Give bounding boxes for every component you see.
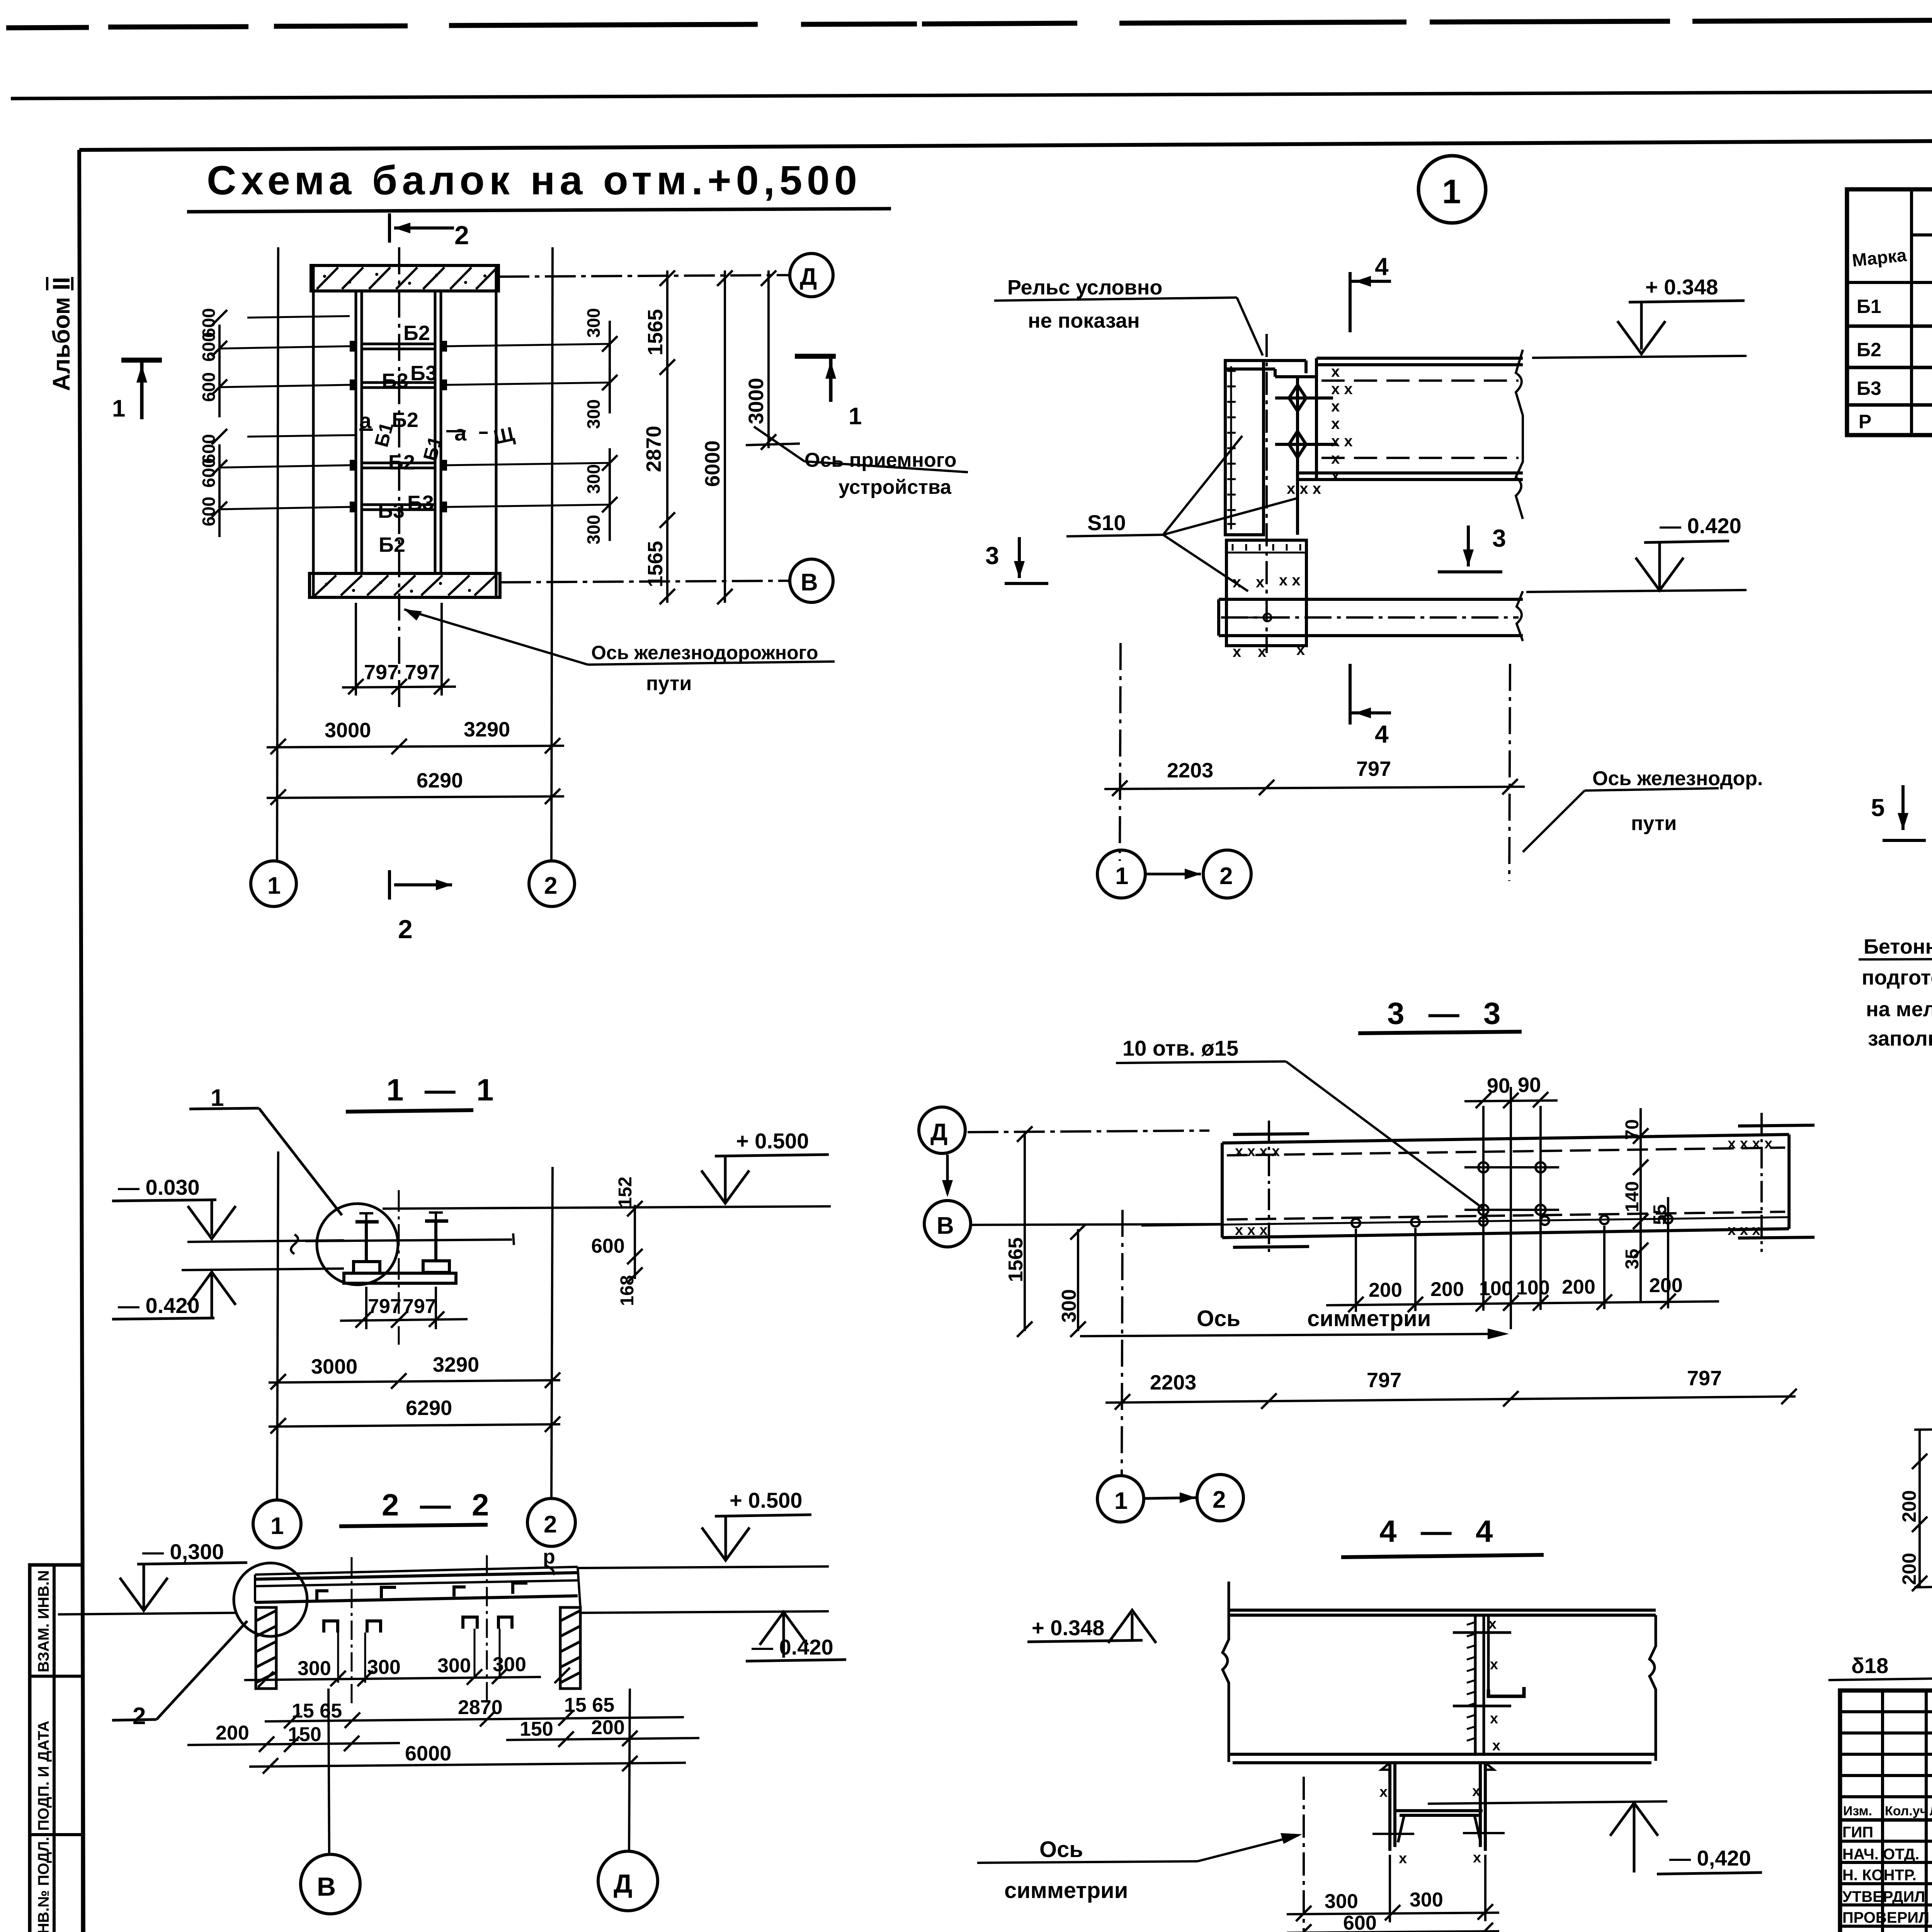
svg-text:200: 200 [1649,1274,1683,1297]
svg-text:— 0.420: — 0.420 [752,1635,833,1659]
svg-text:5: 5 [1871,794,1885,821]
svg-text:x: x [1473,1850,1481,1866]
top edge binding dashes [6,18,1932,28]
4-4: weld x marks below [1379,1783,1481,1867]
3-3: label 10 отв ф15 [1116,1036,1483,1209]
svg-text:1: 1 [849,403,862,430]
svg-text:x: x [1492,1738,1500,1754]
1-1: elevation -0.030 [112,1175,344,1242]
svg-text:Ось: Ось [1197,1306,1240,1331]
detail 1: rail axis dash-dot [1265,334,1268,653]
detail 1: lower plate weld ticks [1233,544,1300,551]
plan: right channel beam [435,291,441,573]
svg-text:2203: 2203 [1167,759,1213,782]
svg-text:а: а [359,408,372,433]
svg-text:Б2: Б2 [388,451,415,474]
svg-text:200: 200 [1898,1553,1920,1585]
svg-text:200: 200 [1562,1276,1595,1298]
svg-text:200: 200 [1369,1279,1402,1301]
detail 1: weld x marks column [1287,363,1353,497]
svg-text:2: 2 [544,872,557,899]
3-3: grid circle 1 [1097,1476,1144,1522]
svg-text:x: x [1379,1784,1388,1800]
svg-text:Б2: Б2 [403,321,430,345]
svg-text:+ 0.348: + 0.348 [1032,1616,1104,1640]
plan: extension lines left [219,316,355,509]
svg-text:300: 300 [583,464,604,494]
svg-text:x x x x: x x x x [1235,1143,1280,1160]
detail 1: grid circle 1 [1097,850,1145,898]
2-2: right wall hatched [560,1607,580,1689]
section 4-4 title [1341,1514,1544,1557]
svg-text:200: 200 [591,1716,625,1739]
svg-text:3 — 3: 3 — 3 [1387,996,1508,1031]
section marker 3 right [1438,524,1506,572]
svg-text:ПОДП. И ДАТА: ПОДП. И ДАТА [35,1721,52,1831]
1-1: right dim 152/600/168 [627,1201,643,1283]
svg-text:Ось: Ось [1039,1837,1083,1862]
svg-text:2: 2 [398,915,413,944]
1-1: rail head ticks [359,1213,443,1222]
svg-text:797: 797 [368,1295,401,1318]
svg-text:600: 600 [199,372,219,402]
1-1: 797 797 dimension [340,1287,468,1329]
4-4: right break vertical [1650,1615,1656,1761]
svg-text:x: x [1331,415,1340,432]
table verticals [1912,189,1932,435]
svg-text:ИНВ.№ ПОДЛ.: ИНВ.№ ПОДЛ. [35,1837,52,1932]
svg-text:2870: 2870 [458,1696,503,1719]
section 2-2 title [339,1488,495,1526]
main title: Схема балок на отм.+0.500 [187,158,891,212]
svg-text:300: 300 [583,308,604,338]
row Б1 [1857,292,1932,318]
svg-text:6290: 6290 [417,769,463,792]
svg-text:заполнителе: заполнителе [1868,1027,1932,1050]
svg-text:3: 3 [985,542,999,570]
elevation -0.420 (detail 1) [1526,514,1747,592]
svg-text:140: 140 [1622,1181,1643,1212]
svg-text:x: x [1331,398,1340,415]
plan: 797 797 dimension [342,603,456,696]
svg-text:2: 2 [133,1703,146,1730]
svg-text:x x: x x [1279,572,1301,589]
svg-text:1 — 1: 1 — 1 [386,1073,500,1107]
1-1: elevation +0.500 [383,1129,831,1209]
svg-text:симметрии: симметрии [1307,1306,1431,1331]
svg-text:300: 300 [1058,1289,1080,1323]
plan: section marker 1 right [795,356,836,402]
3-3: grid circle В [924,1201,971,1247]
section marker 4 bottom [1350,664,1391,724]
svg-text:6000: 6000 [701,440,724,487]
svg-text:300: 300 [367,1656,401,1679]
3-3: rail axes dash-dot [1268,1121,1270,1257]
plan: 1565/2870/1565 dimension line [660,270,675,604]
label Бетонная подготовка М200 на мелком заполнителе [1859,878,1932,1050]
svg-text:Б3: Б3 [407,492,434,515]
svg-text:x: x [1331,363,1340,380]
section marker 5 left [1871,785,1926,840]
svg-text:x: x [1256,574,1264,591]
2-2: axis lines to circles [328,1689,329,1854]
svg-text:не показан: не показан [1028,309,1140,332]
plan: right 300 dimension line [602,321,617,541]
detail 1: beam Б1 bottom flange [1298,473,1523,480]
svg-text:600: 600 [199,497,219,526]
svg-text:Изм.: Изм. [1843,1804,1872,1818]
2-2: elevation -0.300 [58,1539,247,1614]
detail 1: weld ticks on plate [1227,371,1236,524]
plan: grid axis 1 [277,247,278,861]
svg-text:р: р [543,1546,555,1568]
3-3: grid circle Д with arrow to В [919,1107,965,1197]
svg-text:УТВЕРДИЛ: УТВЕРДИЛ [1842,1888,1925,1905]
4-4: elevation +0.348 [1027,1610,1156,1643]
plan: grid circle 1 [251,861,296,906]
svg-text:РАЗРАБОТ: РАЗРАБОТ [1842,1930,1925,1932]
table frame [1847,189,1932,435]
4-4: webs below flange [1381,1763,1494,1851]
svg-text:1: 1 [112,395,125,422]
svg-text:ГИП: ГИП [1842,1824,1873,1841]
1-1: level line through rails with break [291,1233,514,1254]
svg-text:1: 1 [270,1513,284,1539]
svg-text:x: x [1488,1616,1497,1632]
detail 1: column plate upper [1225,361,1264,535]
svg-text:Ось железнодор.: Ось железнодор. [1592,767,1763,790]
svg-text:797: 797 [405,661,440,684]
2-2: slab band [255,1567,580,1607]
svg-text:2203: 2203 [1150,1371,1196,1394]
svg-text:3290: 3290 [433,1353,479,1376]
elevation +0.348 (detail 1) [1532,275,1747,358]
svg-text:Р: Р [1859,411,1871,432]
4-4: stiffener cross ticks [1453,1633,1511,1706]
revision rows: role names [1842,1824,1929,1932]
plan: axis a-a dash line with labels [359,430,488,433]
plan: axis В circle [500,559,833,602]
svg-text:Бетонная: Бетонная [1864,935,1932,958]
svg-text:S10: S10 [1087,510,1126,535]
svg-text:1565: 1565 [1005,1237,1027,1282]
svg-text:x: x [1472,1783,1480,1799]
svg-text:В: В [801,569,818,596]
svg-text:Б2: Б2 [379,533,405,556]
1-1: base plate bar [344,1273,456,1283]
svg-text:300: 300 [583,515,604,544]
1-1: grid circle 1 [253,1500,301,1548]
4-4: foot cross ticks [1372,1833,1505,1834]
plan: outer edge lines [313,265,496,597]
detail 1: beam Б1 top flange [1316,358,1523,480]
svg-text:Б3: Б3 [378,499,405,522]
1-1: right rail [423,1221,449,1272]
top long horizontal rule [11,89,1932,99]
1-1: centre axis between rails [398,1190,400,1345]
svg-text:Д: Д [930,1119,947,1146]
album label: Альбом II (rotated) [48,277,75,391]
svg-text:600: 600 [199,458,219,488]
svg-text:3000: 3000 [325,719,371,742]
svg-text:4: 4 [1375,720,1389,748]
svg-text:Б3: Б3 [1857,378,1881,399]
svg-text:55: 55 [1650,1204,1670,1225]
svg-text:797: 797 [364,661,399,684]
1-1: grid axis lines [277,1151,278,1500]
svg-text:x: x [1296,641,1305,658]
4-4: Ось симметрии label [977,1833,1302,1903]
5-5: left 200/200 dimension [1912,1429,1932,1591]
detail 1: bolts (diamonds) [1275,385,1337,457]
svg-text:797: 797 [403,1295,436,1318]
svg-text:15 65: 15 65 [292,1700,342,1722]
2-2: leader 2 [112,1621,247,1730]
svg-text:600: 600 [199,332,219,362]
svg-text:Рельс условно: Рельс условно [1007,276,1162,299]
svg-text:— 0,420: — 0,420 [1669,1846,1751,1870]
3-3: axis Д dash line [968,1131,1209,1132]
svg-text:200: 200 [1430,1278,1464,1301]
svg-text:— 0,300: — 0,300 [142,1539,224,1564]
2-2: elevation -0.420 right [580,1611,846,1661]
svg-text:пути: пути [1631,812,1677,835]
svg-text:90: 90 [1518,1073,1541,1097]
2-2: elevation +0.500 [578,1488,829,1568]
4-4: left break vertical [1223,1582,1229,1762]
4-4: centre axis below [1303,1777,1305,1932]
node 1 circle [1418,156,1486,223]
plan: 6000 dimension line [717,270,733,604]
plan: 6290 dimension [267,789,564,805]
2-2: detail circle left [234,1563,307,1636]
svg-text:Д: Д [800,264,817,290]
3-3: centre axis vertical [1510,1087,1512,1329]
title block outer frame [1840,1690,1932,1932]
detail 1: grid circle 2 [1203,850,1251,898]
svg-text:3000: 3000 [745,378,768,424]
svg-text:Альбом II: Альбом II [48,277,75,391]
3-3: weld x-marks [1235,1136,1772,1238]
label Ось железнодор. пути (detail 1) [1523,767,1763,852]
plan: left channel beam [356,291,362,573]
svg-text:НАЧ. ОТД.: НАЧ. ОТД. [1842,1846,1919,1863]
4-4: channel hat between webs [1396,1811,1483,1842]
section 1-1 title [346,1073,500,1112]
4-4: centre stiffener [1475,1615,1488,1753]
svg-text:x x: x x [1331,433,1353,450]
plan: section marker 2 top [389,213,454,243]
1-1: grid circle 2 [527,1498,575,1546]
3-3: line from В to beam [971,1224,1222,1225]
svg-text:2: 2 [1213,1486,1226,1513]
svg-text:2: 2 [454,221,469,250]
svg-text:+ 0.348: + 0.348 [1645,275,1718,299]
2-2: left wall hatched [256,1607,276,1689]
3-3: 300 dimension left [1070,1224,1086,1337]
svg-text:797: 797 [1367,1369,1401,1392]
svg-text:устройства: устройства [838,476,952,498]
3-3: hidden dashed lines [1227,1148,1785,1219]
label δ18 with leader [1828,1585,1932,1680]
svg-text:1565: 1565 [644,309,667,355]
svg-text:3: 3 [1492,524,1506,552]
svg-text:Н. КОНТР.: Н. КОНТР. [1842,1867,1917,1884]
svg-text:на мелком: на мелком [1866,998,1932,1021]
svg-text:x: x [1490,1711,1498,1727]
svg-text:x: x [1490,1656,1498,1673]
svg-text:70: 70 [1622,1119,1643,1140]
svg-text:2870: 2870 [642,426,665,472]
plan: grid axis 2 [551,247,553,861]
3-3: axis 1 dash vertical [1122,1210,1122,1475]
svg-text:Б1: Б1 [1857,296,1881,317]
plan: railway centre axis (dash-dot) [398,247,400,708]
3-3: grid circle 2 [1197,1475,1243,1521]
row Р [1859,411,1932,432]
2-2: label p with hook [543,1546,555,1575]
svg-text:+ 0.500: + 0.500 [730,1488,802,1512]
svg-text:152: 152 [615,1177,636,1207]
svg-text:150: 150 [520,1718,553,1740]
detail 1: railway axis dash line [1509,664,1510,881]
section marker 3 left [985,537,1048,583]
3-3: arrow between 1 and 2 [1144,1492,1196,1503]
plan: cross beams Б3 rows with end plates [362,344,435,510]
svg-text:Кол.уч: Кол.уч [1885,1804,1927,1818]
1-1: 6290 dimension [269,1417,560,1434]
svg-text:В: В [317,1872,336,1901]
svg-text:797: 797 [1687,1367,1722,1390]
revision header: Изм Кол.уч Лист Nдок Подп. Дата [1843,1804,1932,1819]
svg-text:300: 300 [298,1657,331,1680]
2-2: rail axes dash-dot [351,1557,353,1704]
svg-text:подготовка М200: подготовка М200 [1862,966,1932,989]
svg-text:4 — 4: 4 — 4 [1379,1514,1500,1548]
row Б3 [1857,377,1932,401]
svg-text:x x: x x [1331,381,1353,398]
svg-text:В: В [937,1213,954,1239]
svg-text:3290: 3290 [464,718,510,741]
svg-text:x: x [1399,1850,1407,1867]
svg-text:x: x [1331,468,1340,485]
left margin stamp boxes [30,1565,83,1932]
3-3: bolt holes upper rows [1464,1162,1559,1215]
row Б2 [1857,336,1932,363]
svg-text:1: 1 [1442,172,1461,211]
svg-text:10 отв. ø15: 10 отв. ø15 [1122,1036,1238,1060]
section marker 4 top [1350,272,1391,332]
3-3: Ось симметрии with arrow [1080,1306,1509,1339]
svg-text:+ 0.500: + 0.500 [736,1129,809,1153]
svg-text:35: 35 [1622,1249,1643,1269]
svg-text:168: 168 [617,1275,638,1306]
svg-text:x x x x: x x x x [1728,1136,1772,1152]
svg-text:x x x: x x x [1728,1222,1760,1238]
svg-text:— 0.420: — 0.420 [1660,514,1742,538]
detail 1: arrow between circles [1146,869,1201,879]
svg-text:Схема балок на отм.+0,500: Схема балок на отм.+0,500 [207,158,862,203]
1-1: detail circle [317,1204,398,1285]
4-4: angle clip [1488,1687,1524,1696]
svg-text:x x x: x x x [1287,480,1321,497]
svg-text:6290: 6290 [406,1396,452,1420]
label Рельс условно не показан [994,276,1263,355]
svg-text:Ось железнодорожного: Ось железнодорожного [591,642,818,663]
svg-text:300: 300 [1325,1890,1358,1913]
svg-text:x: x [1258,643,1266,660]
svg-text:x: x [1233,643,1241,660]
plan: grid circle 2 [529,861,575,906]
3-3: bolt holes bottom row [1141,1215,1789,1227]
plan: label Ось железнодорожного пути [404,609,835,695]
table horizontals [1847,235,1932,405]
detail 1: lower column plate [1226,540,1306,646]
svg-text:— 0.420: — 0.420 [118,1293,200,1318]
2-2: channel marks below slab [324,1617,512,1633]
svg-text:2 — 2: 2 — 2 [382,1488,495,1522]
svg-text:1: 1 [267,872,281,899]
detail 1: rail seat / top angle [1225,361,1316,535]
svg-text:ПРОВЕРИЛ: ПРОВЕРИЛ [1842,1909,1929,1926]
svg-text:Б2: Б2 [1857,339,1881,361]
1-1: left rail [354,1222,380,1273]
svg-text:1: 1 [1115,863,1128,889]
svg-text:δ18: δ18 [1851,1653,1888,1678]
svg-text:600: 600 [1343,1912,1377,1932]
svg-text:600: 600 [591,1235,625,1257]
4-4: beam top flange [1228,1610,1656,1615]
svg-text:2: 2 [544,1511,557,1538]
3-3: end plates [1233,1125,1815,1247]
detail 1: lower weld x marks [1233,572,1305,660]
1-1: 3000/3290 dimension [269,1372,560,1389]
2-2: grid circle В [301,1854,360,1914]
svg-text:3000: 3000 [311,1355,357,1378]
4-4: bottom flange [1229,1754,1656,1763]
svg-text:300: 300 [493,1653,526,1676]
svg-text:Б3: Б3 [410,362,437,385]
3-3: beam body [1222,1134,1789,1238]
plan: left 600 dimension line [212,310,227,537]
svg-text:Д: Д [614,1869,632,1898]
svg-text:4: 4 [1375,253,1389,281]
4-4: weld x marks on stiffener [1488,1616,1500,1754]
label S10 with leaders [1066,436,1296,591]
plan: label Ось приемного устройства [754,427,968,498]
svg-text:симметрии: симметрии [1004,1878,1128,1903]
plan: bottom concrete band [310,573,500,597]
plan: top concrete band [311,265,498,291]
plan: section marker 2 bottom [389,870,452,900]
3-3: right dims 70/140/55/35 [1633,1108,1668,1303]
svg-text:797: 797 [1356,757,1391,781]
svg-text:300: 300 [437,1655,471,1677]
detail 1: lower beam right break [1517,591,1523,641]
plan: axis Д circle [498,253,833,297]
2-2: grid circle Д [598,1851,658,1911]
revision table grid [1840,1690,1932,1932]
detail 1: lower beam (rail support) [1219,599,1523,636]
svg-text:200: 200 [1898,1490,1920,1522]
svg-text:— 0.030: — 0.030 [118,1175,200,1199]
2-2: extension verticals [338,1629,500,1683]
plan: 3000/3290 dimension [267,738,564,754]
svg-text:Лист: Лист [1930,1804,1932,1818]
detail 1: axis 1 dash line [1120,643,1121,861]
svg-text:2: 2 [1219,863,1233,889]
3-3: 1565 dimension left [1017,1126,1032,1337]
